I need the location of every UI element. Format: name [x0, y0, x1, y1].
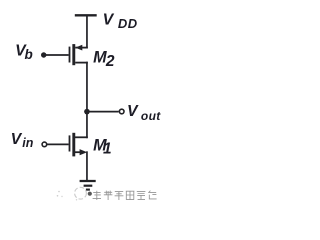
- svg-text:out: out: [141, 109, 161, 123]
- svg-text:V: V: [11, 131, 23, 148]
- svg-text:V: V: [103, 12, 115, 29]
- svg-text:1: 1: [103, 140, 112, 157]
- svg-text:in: in: [22, 136, 33, 150]
- svg-text:DD: DD: [118, 16, 138, 31]
- svg-text:b: b: [25, 47, 33, 62]
- svg-text:V: V: [127, 103, 139, 120]
- svg-text:2: 2: [105, 53, 115, 70]
